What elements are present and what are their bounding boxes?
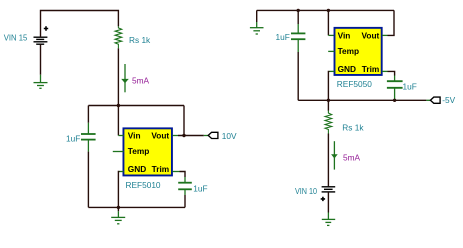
wire Vin drop (right) bbox=[327, 10, 329, 35]
resistor Rs 1k (left) bbox=[115, 26, 122, 48]
output tag 10V bbox=[208, 132, 218, 138]
wire top rail (right) bbox=[257, 9, 394, 11]
battery VIN 10 bbox=[321, 187, 336, 201]
wire ground drop (right top) bbox=[256, 10, 258, 22]
svg-text:Vin: Vin bbox=[338, 31, 351, 41]
wire resistor to battery bbox=[327, 134, 329, 187]
wire left leg to bottom rail bbox=[87, 152, 89, 208]
wire Vout up to rail bbox=[388, 10, 395, 35]
node junction Vin/rail (right) bbox=[327, 9, 330, 12]
wire Trim to trim cap (right) bbox=[388, 71, 395, 75]
IC U1 REF5010 body bbox=[123, 128, 172, 175]
svg-text:VIN 10: VIN 10 bbox=[295, 186, 317, 196]
pin Vin stub (left IC) bbox=[118, 135, 123, 137]
svg-text:5mA: 5mA bbox=[132, 76, 150, 86]
label -5V bbox=[442, 95, 455, 105]
label REF5010 bbox=[126, 180, 161, 190]
capacitor C4 1uF (trim, right) bbox=[387, 76, 403, 101]
wire Vin drop bbox=[117, 106, 119, 136]
wire Vout to output tag bbox=[178, 135, 204, 137]
label REF5050 bbox=[337, 79, 372, 89]
svg-text:GND: GND bbox=[338, 64, 356, 74]
ground below bottom rail bbox=[111, 207, 125, 223]
wire input cap to output node wire bbox=[297, 52, 299, 100]
wire right leg rail to Vout node bbox=[183, 106, 185, 136]
wire battery minus lead bbox=[40, 44, 42, 74]
svg-text:GND: GND bbox=[128, 164, 146, 174]
svg-text:Temp: Temp bbox=[338, 46, 360, 56]
pin GND stub (right IC) bbox=[330, 70, 335, 72]
svg-text:10V: 10V bbox=[222, 131, 237, 141]
battery VIN 15 bbox=[34, 26, 49, 44]
node junction Vout/rail bbox=[182, 134, 185, 137]
svg-text:1uF: 1uF bbox=[66, 134, 80, 144]
wire battery to ground (right) bbox=[327, 192, 329, 212]
current arrow 5mA (right) bbox=[331, 141, 338, 169]
wire trim cap to bottom rail bbox=[184, 195, 186, 207]
wire bottom rail bbox=[88, 206, 185, 208]
current arrow 5mA (left) bbox=[121, 64, 129, 92]
pin Trim stub (left IC) bbox=[173, 171, 180, 173]
svg-text:Vout: Vout bbox=[361, 31, 379, 41]
svg-text:REF5010: REF5010 bbox=[126, 180, 161, 190]
capacitor C1 1uF (input, left) bbox=[81, 123, 96, 152]
ground top-left of right circuit bbox=[250, 22, 264, 34]
pin Vout stub (right IC) bbox=[382, 34, 387, 36]
ground below battery bbox=[34, 75, 48, 89]
wire battery top rail to resistor bbox=[41, 11, 119, 38]
wire horizontal rail bbox=[88, 105, 184, 107]
svg-text:Rs 1k: Rs 1k bbox=[129, 35, 151, 45]
label VIN 15 bbox=[4, 33, 28, 43]
svg-text:-5V: -5V bbox=[442, 95, 455, 105]
node junction trim cap/output wire bbox=[393, 99, 396, 102]
svg-text:1uF: 1uF bbox=[403, 81, 417, 91]
IC U2 REF5050 body bbox=[335, 28, 382, 75]
label 5mA (left) bbox=[132, 76, 150, 86]
svg-text:VIN 15: VIN 15 bbox=[4, 33, 28, 43]
pin Vout stub (left IC) bbox=[173, 135, 179, 137]
svg-text:1uF: 1uF bbox=[193, 183, 207, 193]
tag pin stub 10V bbox=[204, 135, 208, 137]
node junction GND/bottom rail bbox=[117, 206, 120, 209]
wire resistor to rail junction bbox=[117, 48, 119, 105]
svg-text:Trim: Trim bbox=[362, 64, 380, 74]
wire GND pin down to bottom rail bbox=[118, 172, 119, 208]
resistor Rs 1k (right) bbox=[325, 111, 332, 134]
pin Temp stub (left IC) bbox=[113, 151, 124, 153]
wire Trim to trim capacitor bbox=[180, 172, 186, 178]
svg-text:REF5050: REF5050 bbox=[337, 79, 372, 89]
svg-text:Rs 1k: Rs 1k bbox=[342, 123, 364, 133]
wire left leg down to capacitor bbox=[87, 106, 89, 123]
label 1uF (right input cap) bbox=[276, 32, 290, 42]
pin GND stub (left IC) bbox=[120, 171, 124, 173]
svg-text:Trim: Trim bbox=[152, 164, 170, 174]
ground bottom (right) bbox=[322, 213, 335, 226]
svg-text:Temp: Temp bbox=[128, 146, 150, 156]
node junction resistor/rail bbox=[117, 104, 120, 107]
label Rs 1k (left) bbox=[129, 35, 151, 45]
node junction cap/rail (right) bbox=[297, 9, 300, 12]
output tag -5V bbox=[430, 97, 440, 103]
label 1uF (trim cap left) bbox=[193, 183, 207, 193]
tag pin stub -5V bbox=[426, 99, 430, 101]
label VIN 10 bbox=[295, 186, 317, 196]
label 5mA (right) bbox=[343, 152, 361, 162]
svg-text:1uF: 1uF bbox=[276, 32, 290, 42]
label 1uF (input cap) bbox=[66, 134, 80, 144]
capacitor C2 1uF (trim, left) bbox=[178, 177, 192, 195]
svg-text:Vout: Vout bbox=[151, 131, 169, 141]
svg-text:5mA: 5mA bbox=[343, 152, 361, 162]
label 1uF (right trim cap) bbox=[403, 81, 417, 91]
pin Vin stub (right IC) bbox=[328, 34, 334, 36]
wire GND pin down to output wire bbox=[328, 71, 329, 100]
label 10V bbox=[222, 131, 237, 141]
node junction GND/output wire bbox=[327, 99, 330, 102]
pin Trim stub (right IC) bbox=[382, 70, 387, 72]
capacitor C3 1uF (input, right) bbox=[291, 10, 305, 52]
label Rs 1k (right) bbox=[342, 123, 364, 133]
wire output horizontal bbox=[298, 99, 426, 101]
pin Temp stub (right IC) bbox=[328, 50, 334, 52]
wire output node down to resistor bbox=[327, 100, 329, 111]
svg-text:Vin: Vin bbox=[128, 131, 141, 141]
